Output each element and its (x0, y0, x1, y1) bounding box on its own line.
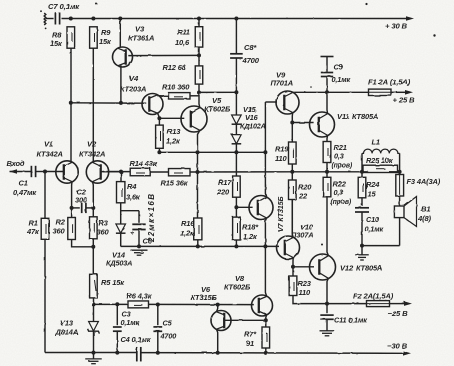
label R19 (275, 145, 289, 164)
wire R1 to rail (44, 239, 46, 352)
svg-text:15к: 15к (50, 39, 63, 48)
svg-text:F1 2А (1,5А): F1 2А (1,5А) (368, 78, 411, 87)
svg-text:R10 360: R10 360 (162, 83, 190, 92)
svg-text:С5: С5 (163, 319, 173, 328)
wire riser V9 base (264, 102, 266, 152)
svg-text:1,2к: 1,2к (180, 229, 195, 238)
svg-text:R13: R13 (167, 127, 181, 136)
junction zener at ground rail (92, 351, 96, 355)
junction R5/zener node (92, 302, 96, 306)
svg-text:0,1мк: 0,1мк (365, 225, 384, 234)
label C6 rotated (143, 193, 157, 246)
wire R15 to output line (190, 171, 292, 173)
resistor R25 on line (363, 165, 398, 172)
wire R7 to rail (265, 348, 267, 353)
wire V4 base from V1/R8 node (71, 102, 146, 104)
junction R24/L1 node (360, 170, 364, 174)
label R8 (50, 31, 63, 49)
wire node to C8/diodes (199, 91, 236, 93)
wire V2 base feedback column (92, 247, 94, 274)
wire R20 to V10 collector (291, 200, 293, 235)
wire V2 base to R14 (103, 171, 130, 173)
wire V3 base to R11/R12 divider (128, 54, 199, 56)
svg-text:V7 КТ315Б: V7 КТ315Б (276, 197, 285, 232)
diode V15 (232, 92, 242, 124)
junction C9 / V11 collector (325, 90, 329, 94)
svg-text:R5 15к: R5 15к (101, 278, 125, 287)
svg-text:С7 0,1мк: С7 0,1мк (48, 2, 80, 11)
capacitor C7 (44, 13, 59, 26)
label V12 (340, 264, 382, 273)
wire output line (292, 171, 368, 173)
svg-text:R15 36к: R15 36к (161, 179, 189, 188)
label R16 (180, 219, 195, 238)
resistor R11 (195, 19, 203, 48)
wire R12 to node (198, 84, 200, 96)
label R9 (99, 28, 112, 46)
wire F2 to arrow (390, 303, 405, 305)
ground under C6 (131, 249, 148, 251)
arrow -25V (404, 301, 412, 306)
svg-text:+ 30 В: + 30 В (385, 22, 408, 31)
wire V8 emitter down (265, 315, 268, 321)
ground at output network (355, 246, 369, 260)
svg-text:1,2к: 1,2к (166, 137, 181, 146)
resistor R4 (117, 172, 125, 203)
svg-text:V11: V11 (337, 112, 350, 121)
wire F3 to speaker (399, 196, 401, 206)
fuse F3 (396, 172, 404, 196)
resistor R12 (195, 66, 203, 84)
wire R18 bottom (235, 240, 237, 246)
svg-text:КТ602Б: КТ602Б (204, 105, 231, 114)
capacitor C2 (72, 203, 94, 213)
label V10 (291, 223, 314, 240)
resistor R1 (41, 172, 49, 240)
label R3 (97, 219, 110, 237)
inductor L1 (362, 149, 400, 172)
label V1 (37, 140, 63, 159)
wire R19 to output line (291, 164, 293, 180)
wire R6 to V8 base (149, 303, 254, 305)
svg-text:110: 110 (299, 288, 311, 297)
wire to R23 (292, 267, 294, 276)
svg-text:С1: С1 (19, 179, 28, 188)
wire speaker to return (399, 218, 401, 246)
wire V6 base to V8 emitter node (224, 319, 266, 321)
label R17 (216, 178, 232, 197)
junction V8 emitter / V6 base / R7 (264, 318, 268, 322)
wire +30V top rail (62, 18, 407, 20)
junction feedback column at output line (196, 170, 200, 174)
junction V3 collector at base wire (119, 101, 123, 105)
label C10 (365, 215, 384, 234)
label R24 (366, 180, 380, 199)
junction R13 top (157, 116, 161, 120)
wire R9 to V2 collector (92, 48, 94, 162)
capacitor C10 (355, 198, 369, 246)
svg-text:0,1мк: 0,1мк (332, 75, 351, 84)
svg-text:R16: R16 (181, 219, 195, 228)
wire R10 right to node (190, 95, 199, 97)
label R1 (26, 219, 40, 237)
wire V6 emitter down to rail (217, 329, 218, 353)
label R20 (298, 183, 312, 201)
label R22 (331, 180, 352, 207)
wire R13 to bias wire (158, 148, 160, 152)
svg-text:П307А: П307А (291, 231, 314, 240)
svg-text:L1: L1 (372, 138, 380, 147)
svg-text:1,2к: 1,2к (243, 232, 258, 241)
junction V6 emitter at rail (216, 351, 220, 355)
junction C2 right (91, 206, 95, 210)
label V15 V16 KD102A (240, 105, 266, 131)
label R4 (126, 182, 141, 202)
resistor R15 (169, 169, 191, 176)
wire R16 to lower wire (197, 240, 199, 247)
resistor R19 (289, 142, 297, 164)
label C2 (75, 188, 88, 205)
junction V10 emitter / V12 base / R23 (291, 265, 295, 269)
wire lower bias horizontal (121, 245, 279, 247)
wire V2 base to feedback node (101, 171, 121, 173)
svg-text:360: 360 (53, 227, 66, 236)
svg-text:(пров): (пров) (332, 163, 353, 170)
label V5 (204, 96, 231, 114)
wire V1 emitter down (71, 182, 73, 218)
resistor R20 (289, 180, 297, 200)
junction R4 top (119, 170, 123, 174)
wire V11 collector up (326, 92, 329, 113)
resistor R2 (68, 218, 76, 240)
svg-text:R9: R9 (101, 28, 111, 37)
transistor V10 P303A (277, 236, 300, 259)
wire to V11 base (292, 122, 313, 124)
junction C3 at rail (115, 351, 119, 355)
svg-text:15: 15 (368, 190, 377, 199)
label V4 (120, 74, 146, 94)
label V11 (337, 112, 378, 121)
svg-text:91: 91 (246, 339, 254, 348)
svg-text:10,6: 10,6 (175, 38, 190, 47)
svg-text:V3: V3 (135, 25, 145, 34)
transistor V8 KT602B (252, 295, 273, 316)
label C8 (242, 43, 260, 65)
resistor R6 (128, 301, 149, 308)
svg-text:V4: V4 (129, 74, 139, 83)
wire R5 to node (93, 298, 95, 305)
label C3 (121, 310, 140, 328)
resistor R3 (90, 217, 98, 239)
junction R19/R20 at output line (290, 170, 294, 174)
junction C8 top (234, 17, 238, 21)
svg-text:С8*: С8* (244, 43, 257, 52)
svg-text:R6 4,3к: R6 4,3к (127, 292, 153, 301)
resistor R24 (358, 172, 366, 198)
resistor R22 (323, 177, 331, 197)
svg-text:КТ602Б: КТ602Б (224, 283, 251, 292)
wire R11 to R12 (198, 47, 200, 66)
svg-text:(пров): (пров) (331, 199, 352, 206)
resistor R17 (233, 176, 241, 197)
wire V9 collector to +25 line (293, 91, 295, 93)
wire diode bottom to R17 (235, 152, 237, 176)
junction R13 bottom (157, 150, 161, 154)
svg-text:R14 43к: R14 43к (130, 159, 158, 168)
svg-text:R20: R20 (298, 183, 312, 192)
capacitor C9 (321, 57, 334, 93)
svg-text:С11 0,1мк: С11 0,1мк (334, 316, 367, 325)
wire V6 collector up to servo wire (217, 305, 218, 312)
svg-text:R11: R11 (177, 28, 190, 37)
svg-text:0,1мк: 0,1мк (121, 318, 140, 327)
wire V2 emitter down (92, 182, 95, 217)
svg-text:КТ203А: КТ203А (120, 85, 146, 94)
junction R9 top (91, 17, 95, 21)
wire R17 to R18 (235, 197, 237, 217)
arrow +30V (406, 16, 414, 21)
label R23 (298, 279, 312, 297)
junction R8 top (69, 17, 73, 21)
label V2 (79, 140, 105, 159)
svg-text:R7*: R7* (244, 330, 257, 339)
svg-text:F2 2А(1,5А): F2 2А(1,5А) (353, 292, 394, 301)
arrow +25V (405, 90, 413, 95)
junction R18 bottom (234, 244, 238, 248)
label V3 (128, 25, 154, 43)
ground symbol on rail (85, 353, 102, 364)
svg-text:V2: V2 (87, 140, 97, 149)
junction C8 bottom node (234, 90, 238, 94)
svg-text:Вход: Вход (7, 159, 25, 168)
wire feedback column (197, 152, 199, 218)
svg-text:F3 4А(3А): F3 4А(3А) (407, 177, 441, 186)
svg-text:0,3: 0,3 (334, 152, 344, 161)
junction V3 base (197, 53, 201, 57)
svg-text:С9: С9 (334, 63, 344, 72)
transistor V9 P701A (276, 91, 299, 114)
svg-text:22мк×16В: 22мк×16В (147, 193, 156, 243)
svg-text:R3: R3 (99, 219, 109, 228)
resistor R23 (289, 276, 297, 296)
junction line to F3 corner (398, 170, 402, 174)
svg-text:V16: V16 (245, 113, 259, 122)
junction speaker return / C10 (360, 244, 364, 248)
svg-text:Д814А: Д814А (55, 328, 79, 337)
transistor V4 KT203A (142, 94, 163, 115)
wire to V12 base (293, 266, 314, 268)
svg-text:15к: 15к (99, 37, 112, 46)
transistor V6 KT315B (211, 311, 231, 331)
wire bottom rail right segment (141, 352, 403, 355)
transistor V11 KT805A (310, 112, 335, 137)
svg-text:R25 10к: R25 10к (366, 156, 394, 165)
wire V3 emitter to rail (119, 19, 121, 48)
svg-text:КТ342А: КТ342А (37, 150, 63, 159)
junction V6 collector (216, 303, 220, 307)
label R7 (244, 330, 257, 349)
transistor V3 KT361A (113, 47, 133, 67)
wire V12 emitter down (327, 278, 328, 303)
svg-text:КТ342А: КТ342А (79, 150, 105, 159)
svg-text:−25 В: −25 В (388, 309, 409, 318)
wire R21 to output line (326, 163, 328, 178)
junction R1 at input (43, 170, 47, 174)
capacitor C5 (153, 305, 162, 353)
svg-text:R23: R23 (298, 279, 312, 288)
wire V5 collector up (198, 96, 201, 108)
svg-text:R2: R2 (56, 218, 66, 227)
transistor V1 KT342A (56, 161, 78, 183)
wire bottom rail left segment (45, 352, 137, 354)
ground under C11 (320, 330, 335, 332)
svg-text:КТ805А: КТ805А (356, 264, 382, 273)
svg-text:360: 360 (97, 228, 110, 237)
junction V9 emitter / V11 base (290, 121, 294, 125)
junction V3 emitter at rail (118, 17, 122, 21)
junction V7 emitter / V8 collector (263, 244, 267, 248)
junction C2 left (70, 206, 74, 210)
svg-text:С10: С10 (366, 215, 379, 224)
svg-text:R19: R19 (275, 145, 289, 154)
wire R25 to corner (389, 171, 400, 173)
svg-text:R18*: R18* (242, 223, 259, 232)
svg-text:R17: R17 (218, 178, 232, 187)
svg-text:V1: V1 (44, 140, 53, 149)
label C9 (332, 63, 351, 85)
diode V14 KD503A (116, 211, 126, 247)
scan speck (40, 3, 436, 246)
label V14 (106, 251, 132, 268)
fuse F2 (367, 301, 390, 307)
transistor V2 KT342A (86, 161, 108, 183)
svg-text:КТ315Б: КТ315Б (191, 293, 218, 302)
input terminal arrow (10, 169, 32, 173)
svg-text:R12 68: R12 68 (163, 63, 187, 72)
label C1 (13, 179, 37, 198)
junction C5 top (156, 303, 160, 307)
resistor R7 (262, 320, 270, 348)
wire R4 bottom node (121, 203, 139, 211)
label V8 (224, 274, 251, 292)
wire servo line R5 to V8 base (94, 303, 129, 305)
svg-text:+ 25 В: + 25 В (393, 96, 416, 105)
svg-text:R24: R24 (366, 180, 380, 189)
arrow -30V (403, 351, 411, 356)
wire +25V line (295, 91, 369, 93)
zener diode V13 D814A (88, 304, 100, 352)
junction V4 base wire (69, 101, 73, 105)
wire bias node horizontal (159, 151, 265, 153)
resistor R13 (156, 118, 164, 148)
label R11 (175, 28, 190, 48)
svg-text:V12: V12 (340, 264, 354, 273)
svg-text:С4 0,1мк: С4 0,1мк (121, 335, 152, 344)
wire V11 emitter to R21 (326, 135, 329, 141)
resistor R9 (90, 27, 98, 48)
svg-text:4(8): 4(8) (417, 214, 432, 223)
wire speaker return (362, 245, 400, 247)
svg-text:4700: 4700 (242, 56, 260, 65)
transistor V5 KT602B (181, 106, 207, 132)
resistor R21 (323, 142, 331, 163)
junction diode chain bottom (234, 150, 238, 154)
label V9 (271, 71, 294, 88)
wire V12 collector up (327, 197, 328, 256)
junction R16 bottom (196, 244, 200, 248)
svg-text:4700: 4700 (160, 332, 177, 341)
wire V4 emitter to R10 (157, 95, 168, 97)
wire input to V1 base (45, 171, 64, 173)
svg-text:+: + (130, 230, 134, 237)
junction C3 top (115, 302, 119, 306)
svg-text:220: 220 (216, 188, 230, 197)
svg-text:V13: V13 (60, 319, 74, 328)
junction V12 emitter at -25 line (325, 302, 329, 306)
wire V7 collector up (265, 152, 266, 197)
speaker B1 (394, 197, 416, 227)
label V6 (191, 285, 218, 302)
svg-text:КТ805А: КТ805А (352, 112, 378, 121)
junction C6 bottom / ground tap (137, 244, 141, 248)
resistor R5 (90, 274, 98, 298)
capacitor C4 in rail (136, 347, 138, 362)
fuse F1 (369, 89, 392, 95)
svg-text:КТ361А: КТ361А (128, 34, 154, 43)
label R21 (332, 143, 353, 170)
wire V9 emitter down (291, 112, 293, 142)
transistor V12 KT805A (310, 254, 336, 280)
svg-text:47к: 47к (26, 227, 40, 236)
label B1 (417, 205, 432, 224)
wire V7 emitter down (265, 218, 266, 247)
svg-text:0,47мк: 0,47мк (13, 188, 37, 197)
svg-text:22: 22 (298, 192, 308, 201)
resistor R10 (169, 93, 191, 99)
transistor V7 KT315B (249, 196, 273, 220)
svg-text:В1: В1 (421, 205, 430, 214)
junction V5 emitter column (196, 150, 200, 154)
svg-text:R4: R4 (127, 182, 137, 191)
junction R12/R10/V5/C8 node (197, 91, 201, 95)
label R13 (166, 127, 181, 146)
svg-text:300: 300 (75, 196, 88, 205)
capacitor C11 (320, 304, 333, 331)
wire V8 collector up (265, 246, 266, 296)
svg-text:П701А: П701А (271, 79, 294, 88)
capacitor C3 (113, 304, 122, 352)
wire V10 emitter (292, 257, 294, 266)
capacitor C8 (230, 19, 243, 93)
junction R21/R22 at output line (325, 170, 329, 174)
junction tail node (91, 245, 95, 249)
resistor R18 (233, 217, 241, 240)
label V13 (55, 319, 79, 337)
svg-text:0,3: 0,3 (334, 188, 344, 197)
wire R14 to R15 (150, 171, 168, 173)
label R18 (242, 223, 259, 242)
junction R11 top (197, 17, 201, 21)
resistor R16 (194, 218, 202, 240)
junction C5 at rail (156, 351, 160, 355)
diode V16 (232, 124, 242, 152)
resistor R8 (67, 27, 75, 48)
svg-text:−30 В: −30 В (387, 342, 408, 351)
wire R3 to tail (92, 239, 94, 247)
wire V5 emitter down to feedback column (198, 130, 200, 152)
label R2 (53, 218, 66, 236)
wire R2 to tail (72, 240, 94, 247)
